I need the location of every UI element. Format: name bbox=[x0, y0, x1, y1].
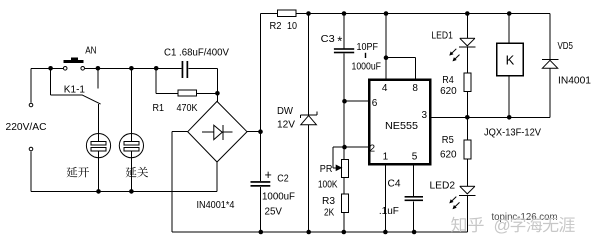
svg-text:*: * bbox=[337, 34, 342, 49]
svg-text:8: 8 bbox=[412, 83, 418, 94]
svg-text:220V/AC: 220V/AC bbox=[6, 121, 47, 133]
svg-text:4: 4 bbox=[382, 83, 388, 94]
svg-text:100K: 100K bbox=[318, 178, 338, 190]
svg-text:AN: AN bbox=[85, 44, 96, 56]
svg-text:JQX-13F-12V: JQX-13F-12V bbox=[484, 126, 541, 138]
svg-text:VD5: VD5 bbox=[558, 40, 574, 52]
svg-text:1000uF: 1000uF bbox=[352, 61, 382, 73]
svg-text:LED1: LED1 bbox=[431, 30, 453, 42]
svg-text:LED2: LED2 bbox=[430, 179, 456, 191]
svg-text:620: 620 bbox=[440, 85, 457, 97]
svg-text:K1-1: K1-1 bbox=[64, 83, 85, 95]
svg-text:620: 620 bbox=[440, 149, 457, 161]
svg-text:PR: PR bbox=[320, 163, 333, 175]
svg-text:K: K bbox=[506, 53, 515, 68]
svg-text:R5: R5 bbox=[442, 134, 454, 146]
svg-text:6: 6 bbox=[372, 98, 378, 109]
svg-text:C3: C3 bbox=[321, 33, 335, 45]
svg-text:470K: 470K bbox=[177, 102, 198, 114]
svg-text:IN4001*4: IN4001*4 bbox=[197, 199, 235, 211]
svg-text:10: 10 bbox=[287, 20, 297, 32]
svg-text:5: 5 bbox=[412, 152, 418, 163]
svg-text:NE555: NE555 bbox=[385, 120, 418, 132]
svg-text:IN4001: IN4001 bbox=[558, 75, 591, 87]
svg-text:R4: R4 bbox=[442, 74, 454, 86]
svg-text:2: 2 bbox=[370, 144, 376, 155]
svg-text:R1: R1 bbox=[153, 102, 165, 114]
svg-text:10PF: 10PF bbox=[357, 41, 379, 53]
svg-text:@: @ bbox=[494, 216, 511, 235]
svg-text:R3: R3 bbox=[322, 195, 335, 207]
svg-text:3: 3 bbox=[422, 110, 428, 121]
svg-text:R2: R2 bbox=[270, 20, 282, 32]
svg-text:C1 .68uF/400V: C1 .68uF/400V bbox=[164, 46, 229, 58]
svg-text:C2: C2 bbox=[277, 173, 289, 185]
svg-text:1: 1 bbox=[383, 152, 389, 163]
svg-text:+: + bbox=[265, 168, 272, 182]
svg-text:DW: DW bbox=[277, 105, 293, 117]
svg-text:1000uF: 1000uF bbox=[262, 191, 295, 203]
svg-text:C4: C4 bbox=[388, 177, 401, 189]
svg-text:25V: 25V bbox=[265, 206, 283, 218]
svg-text:2K: 2K bbox=[324, 207, 334, 219]
svg-text:.1uF: .1uF bbox=[379, 205, 399, 217]
svg-text:12V: 12V bbox=[277, 119, 295, 131]
